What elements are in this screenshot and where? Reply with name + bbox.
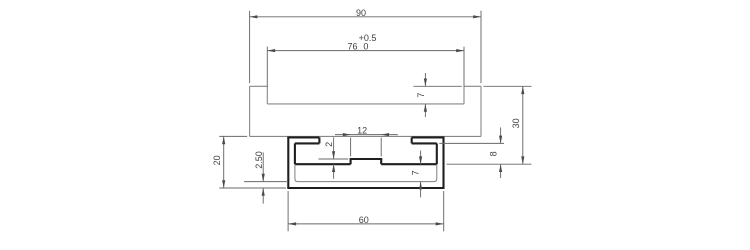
dim 90 right arrowhead <box>473 15 481 18</box>
svg-text:2: 2 <box>324 142 334 147</box>
right lip end face <box>411 137 413 143</box>
svg-text:12: 12 <box>357 126 367 136</box>
boss right face <box>380 159 382 164</box>
channel outer bottom edge <box>287 187 444 189</box>
dim 60 right arrowhead <box>436 222 444 225</box>
top plate right shoulder edge <box>464 85 481 87</box>
dim 76 left extension line <box>266 47 268 87</box>
dim 2.50 lower arrowhead <box>262 188 265 196</box>
top plate right outer edge <box>480 86 482 136</box>
dim 30 bottom arrowhead <box>521 156 524 164</box>
dim 60 left extension line <box>287 191 289 231</box>
top plate bottom edge <box>250 135 481 137</box>
channel right lip top edge <box>412 136 445 138</box>
dim 7 floor lower leader <box>420 182 422 198</box>
channel sub-floor cavity outline <box>295 164 437 181</box>
dim 20 dimension line <box>223 136 225 188</box>
dim 2 extension line from boss top <box>318 158 348 160</box>
dim 2 lower leader <box>333 164 335 179</box>
dim 2.50 upper arrowhead <box>262 174 265 182</box>
dim 90 left extension line <box>249 11 251 83</box>
svg-text:8: 8 <box>489 151 499 156</box>
left wall inner face <box>294 143 296 164</box>
dim 7 floor upper leader <box>420 151 422 165</box>
dim 30 top extension line <box>484 85 532 87</box>
dim 12 left extension line <box>350 138 352 157</box>
dim 12 right extension line <box>380 138 382 157</box>
dim 20 top arrowhead <box>222 136 225 144</box>
dim 2.50 upper extension line <box>244 181 288 183</box>
dim 30 dimension line <box>522 86 524 164</box>
dim 2 upper leader <box>333 137 335 159</box>
dim 30 top arrowhead <box>521 86 524 94</box>
recess left wall <box>266 86 268 104</box>
right lip underside <box>412 142 437 144</box>
dim 20 and 2.50 bottom extension line <box>219 187 286 189</box>
dim 7 recess extension line from shoulder <box>414 85 462 87</box>
dim 60 dimension line <box>288 223 443 225</box>
channel right outer wall <box>442 137 444 188</box>
top plate left outer edge <box>249 86 251 136</box>
recess bottom edge <box>267 103 464 105</box>
dim 60 left arrowhead <box>288 222 296 225</box>
floor top left of boss <box>295 163 351 165</box>
boss top edge <box>350 158 383 160</box>
recess right wall <box>463 86 465 104</box>
dim 7 recess lower arrowhead <box>424 104 427 112</box>
dim 76 dimension line <box>267 50 464 52</box>
svg-text:+0.5: +0.5 <box>359 33 377 43</box>
dim 76 right arrowhead <box>456 49 464 52</box>
dim 8 lower arrowhead <box>499 164 502 172</box>
left lip underside <box>295 142 320 144</box>
dim 7 recess upper leader <box>424 73 426 86</box>
dim 2.50 lower leader <box>262 188 264 204</box>
svg-text:30: 30 <box>511 118 521 128</box>
left lip end face <box>318 137 320 143</box>
dim 2.50 upper leader <box>262 152 264 181</box>
channel left lip top edge <box>287 136 319 138</box>
dim 90 right extension line <box>480 11 482 83</box>
dim 2 upper arrowhead <box>332 151 335 159</box>
dim 12 left arrowhead <box>343 133 351 136</box>
svg-text:2.50: 2.50 <box>254 151 264 169</box>
svg-text:76: 76 <box>347 42 357 52</box>
dim 12 right arrowhead <box>381 133 389 136</box>
svg-text:60: 60 <box>359 215 369 225</box>
svg-text:7: 7 <box>416 93 426 98</box>
dim 8 lower leader <box>500 164 502 178</box>
dim 76 left arrowhead <box>267 49 275 52</box>
top plate left shoulder edge <box>250 85 268 87</box>
dim 7 floor lower arrowhead <box>419 182 422 190</box>
dim 8 upper arrowhead <box>499 136 502 144</box>
svg-text:7: 7 <box>410 170 420 175</box>
floor top right of boss <box>381 163 437 165</box>
dim 90 dimension line <box>250 16 481 18</box>
dim 7 recess lower leader <box>424 104 426 117</box>
dim 20 top extension line <box>219 135 247 137</box>
dim 90 left arrowhead <box>250 15 258 18</box>
boss left face <box>350 159 352 164</box>
dim 8 upper leader <box>500 127 502 143</box>
svg-text:20: 20 <box>212 155 222 165</box>
dim 7 floor upper arrowhead <box>419 156 422 164</box>
svg-text:90: 90 <box>356 8 366 18</box>
dim 60 right extension line <box>443 191 445 231</box>
dim 7 recess upper arrowhead <box>424 79 427 87</box>
right wall inner face <box>436 143 438 164</box>
dim 20 bottom arrowhead <box>222 180 225 188</box>
channel left outer wall <box>287 137 289 188</box>
dim 30 and 8 bottom extension line <box>447 163 532 165</box>
dim 76 right extension line <box>463 47 465 87</box>
dim 8 top extension line <box>439 142 504 144</box>
dim 2 lower arrowhead <box>332 164 335 172</box>
dim 12 dimension line <box>335 134 398 136</box>
